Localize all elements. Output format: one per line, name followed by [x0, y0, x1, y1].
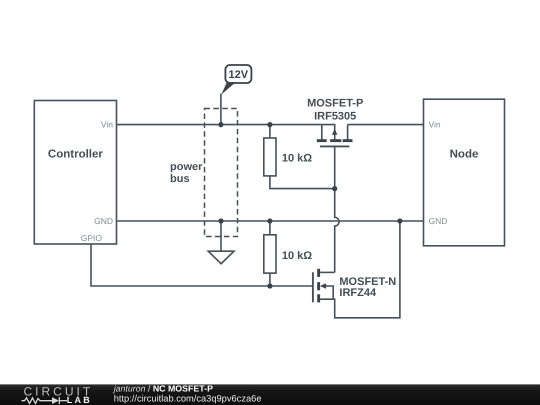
resistor R2 10 kOhm [264, 221, 276, 286]
svg-text:10 kΩ: 10 kΩ [282, 153, 312, 165]
resistor R1 10 kOhm [264, 125, 335, 189]
footer logo wire-resistor-diode glyph [22, 397, 68, 404]
junction: NMOS source return on GND bus [397, 218, 402, 223]
svg-text:GND: GND [429, 216, 448, 226]
junction dots [218, 122, 402, 289]
junction: R1 bottom / PMOS gate node [332, 186, 337, 191]
channel bars [317, 269, 320, 303]
svg-text:LAB: LAB [67, 395, 92, 405]
gate plate [312, 272, 314, 302]
svg-text:bus: bus [170, 173, 190, 185]
svg-text:Vin: Vin [429, 120, 441, 130]
svg-text:IRFZ44: IRFZ44 [339, 287, 377, 299]
wire: ground symbol stem [220, 221, 222, 251]
gate plate [320, 145, 350, 147]
wire: 12V source tap down to VIN bus [220, 94, 222, 125]
junction: R2 top on GND bus [267, 218, 272, 223]
svg-text:Vin: Vin [101, 120, 113, 130]
source stub and return wire to GND bus [320, 221, 400, 318]
body arrow pointing left + tie to source [326, 286, 334, 299]
transistor M2 MOSFET-N IRFZ44 [313, 221, 400, 318]
svg-text:GND: GND [94, 216, 113, 226]
footer bar [0, 384, 540, 405]
junction: ground tap on GND bus [218, 218, 223, 223]
svg-text:power: power [170, 161, 203, 173]
svg-text:10 kΩ: 10 kΩ [282, 250, 312, 262]
wire: net VIN, PMOS drain to Node.Vin [348, 124, 424, 126]
junction: R1 top on VIN bus [267, 122, 272, 127]
channel bars [317, 139, 353, 142]
svg-text:http://circuitlab.com/ca3q9pv6: http://circuitlab.com/ca3q9pv6cza6e [114, 394, 262, 404]
svg-text:12V: 12V [229, 69, 249, 81]
voltage source V1 12V callout [221, 65, 251, 95]
svg-text:MOSFET-P: MOSFET-P [307, 98, 363, 110]
wire: PMOS gate to NMOS drain (hops over GND wire) [335, 147, 339, 272]
svg-text:IRF5305: IRF5305 [314, 110, 356, 122]
junction: R2 bottom on GPIO net [267, 283, 272, 288]
body arrow pointing up [332, 129, 337, 135]
power bus dashed annotation box [205, 109, 238, 237]
transistor M1 MOSFET-P IRF5305 [317, 125, 353, 147]
svg-text:janturon / NC MOSFET-P: janturon / NC MOSFET-P [113, 384, 213, 394]
svg-text:Node: Node [450, 149, 479, 161]
box: Controller [34, 101, 116, 245]
svg-text:Controller: Controller [48, 149, 103, 161]
box: Node [424, 99, 505, 246]
drain stub [320, 271, 335, 273]
wire: net VIN, Controller.Vin to PMOS source [117, 124, 322, 126]
wire: net GND, Controller.GND to Node.GND [117, 220, 424, 222]
junction: 12V tap on VIN bus [218, 122, 223, 127]
wire: GPIO from Controller bottom to NMOS gate [91, 244, 312, 286]
svg-text:GPIO: GPIO [81, 233, 103, 243]
ground symbol [208, 251, 234, 264]
